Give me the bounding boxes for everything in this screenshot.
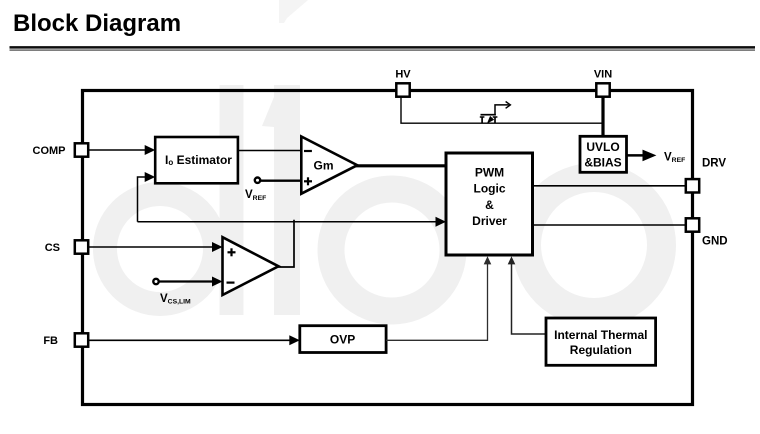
- wire UVLO to VREF arrow: [627, 150, 657, 162]
- watermark letter o2: [527, 178, 662, 313]
- pin VIN: [594, 69, 612, 97]
- wire Io Estimator to Gm minus input: [238, 150, 301, 152]
- svg-text:OVP: OVP: [330, 333, 355, 347]
- wire COMP to Io Estimator: [89, 145, 156, 155]
- svg-text:Gm: Gm: [313, 159, 333, 173]
- node VREF output label: [664, 152, 685, 165]
- watermark top fragment: [279, 0, 308, 23]
- svg-text:COMP: COMP: [33, 145, 66, 157]
- pin FB: [43, 333, 88, 347]
- op-amp Gm: [301, 137, 357, 194]
- wire CS to comparator plus input: [89, 242, 223, 252]
- pin GND: [686, 218, 728, 247]
- svg-text:PWM: PWM: [475, 165, 504, 179]
- wire feedback into Io Estimator: [138, 172, 156, 222]
- pin CS: [45, 240, 88, 254]
- svg-text:VIN: VIN: [594, 69, 612, 81]
- block PWM Logic & Driver: [446, 153, 533, 255]
- block Io Estimator: [155, 137, 238, 183]
- node VCS,LIM terminal: [153, 279, 191, 306]
- svg-text:Logic: Logic: [474, 182, 506, 196]
- watermark letter d stem: [220, 85, 244, 315]
- block OVP: [300, 326, 386, 353]
- wire Gm output to PWM (thick): [355, 164, 446, 167]
- wire VIN riser to UVLO: [601, 98, 604, 137]
- svg-text:&BIAS: &BIAS: [584, 156, 621, 170]
- svg-text:Regulation: Regulation: [570, 343, 632, 357]
- block UVLO & BIAS: [580, 136, 627, 172]
- watermark letter i stem: [262, 85, 300, 315]
- title rule gray: [10, 49, 756, 51]
- svg-text:FB: FB: [43, 335, 58, 347]
- svg-text:DRV: DRV: [702, 158, 726, 170]
- watermark letter o1: [331, 189, 453, 311]
- wire OVP up to PWM bottom: [386, 256, 491, 340]
- pin COMP: [33, 143, 89, 157]
- wire VREF to Gm plus input: [261, 180, 302, 182]
- pin DRV: [686, 158, 727, 193]
- node VREF input terminal: [245, 178, 266, 202]
- wire FB to OVP: [89, 335, 300, 345]
- pin HV: [395, 69, 411, 97]
- wire VCS,LIM to comparator minus input: [159, 277, 223, 287]
- wire HV to transistor to VIN riser: [401, 98, 603, 124]
- wire current bus to PWM: [138, 217, 447, 227]
- svg-text:HV: HV: [395, 69, 411, 81]
- svg-text:Block Diagram: Block Diagram: [13, 10, 181, 37]
- svg-text:&: &: [485, 198, 494, 212]
- wire comparator output riser: [278, 220, 295, 267]
- svg-text:Driver: Driver: [472, 214, 507, 228]
- wire PWM to GND: [533, 224, 687, 226]
- wire PWM to DRV: [533, 185, 687, 187]
- comparator U2: [223, 237, 279, 295]
- svg-text:GND: GND: [702, 236, 728, 248]
- svg-text:Io Estimator: Io Estimator: [165, 153, 232, 167]
- transistor Q1 (HV startup device): [480, 102, 511, 124]
- svg-text:Internal Thermal: Internal Thermal: [554, 328, 647, 342]
- block Internal Thermal Regulation: [546, 318, 656, 365]
- wire Internal Thermal Regulation to PWM bottom: [508, 256, 546, 334]
- title rule black: [10, 46, 756, 49]
- outer IC boundary box: [83, 91, 693, 405]
- svg-text:UVLO: UVLO: [586, 140, 619, 154]
- title Block Diagram: [13, 10, 181, 37]
- watermark letter d bowl: [105, 194, 215, 304]
- svg-text:CS: CS: [45, 242, 60, 254]
